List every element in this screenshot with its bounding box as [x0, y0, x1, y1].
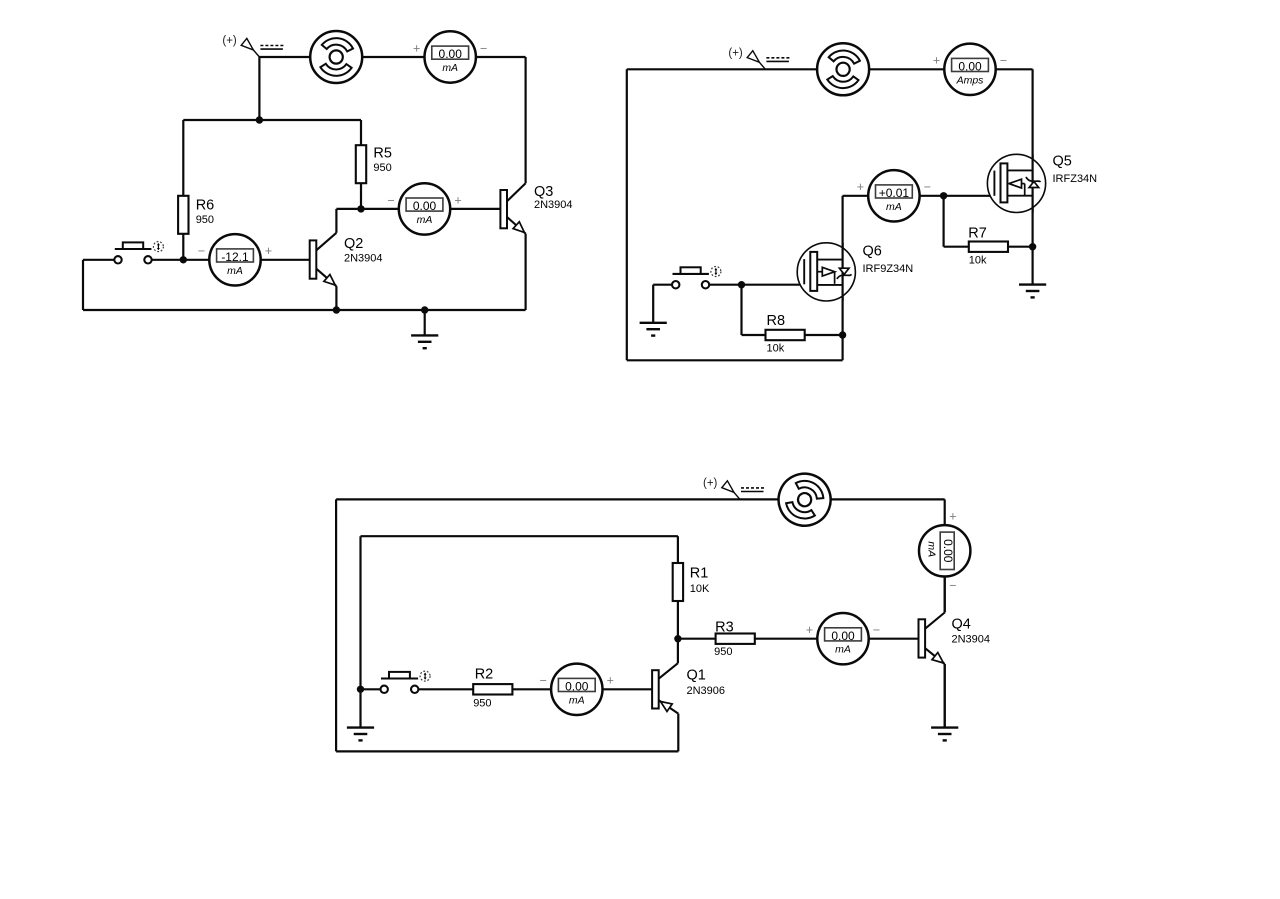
junction node gate/R7 c2 [940, 192, 947, 199]
wire R7 right lead [1008, 246, 1033, 248]
wire net V+ top rail c2 [627, 68, 1033, 70]
svg-text:+: + [607, 674, 614, 688]
ground GND right c3 [931, 728, 958, 741]
wire base distribution rail c1 [183, 119, 361, 121]
svg-text:2N3906: 2N3906 [687, 685, 726, 697]
svg-text:Amps: Amps [956, 74, 985, 86]
transistor Q3 2N3904 (NPN) [500, 57, 525, 310]
junction node R6/base net c1 [180, 256, 187, 263]
label Q4 part 2N3904 [952, 617, 991, 646]
label R6 value 950 [196, 197, 215, 226]
label R5 value 950 [373, 146, 392, 175]
resistor R6 [178, 196, 188, 234]
transistor Q1 2N3906 (PNP) [652, 639, 678, 752]
svg-text:R6: R6 [196, 197, 215, 213]
junction node ground/bottom rail c1 [421, 306, 428, 313]
svg-text:+: + [857, 180, 864, 194]
junction node R1/R3/Q1 collector [674, 635, 681, 642]
svg-text:mA: mA [925, 541, 937, 557]
ammeter A5 +0.01mA [857, 170, 931, 221]
wire gate net Q6 horizontal [709, 284, 804, 286]
transistor Q2 2N3904 (NPN) [310, 209, 337, 310]
wire R1 top lead [677, 536, 679, 563]
label Q3 part 2N3904 [534, 184, 573, 211]
svg-text:−: − [540, 674, 547, 688]
svg-text:950: 950 [373, 162, 391, 174]
wire base rail Q4 c3 [678, 638, 919, 640]
ammeter A4 0.00Amps [933, 44, 1007, 95]
svg-text:0.00: 0.00 [565, 680, 589, 694]
DC power source V1 [310, 31, 362, 83]
svg-text:Q1: Q1 [687, 668, 706, 684]
svg-text:0.00: 0.00 [831, 629, 855, 643]
wire bottom return rail c3 [336, 750, 678, 752]
wire left return vertical c3 [335, 499, 337, 751]
label R2 value 950 [473, 667, 493, 710]
resistor R2 [473, 684, 512, 694]
resistor R5 [356, 145, 366, 183]
svg-text:IRFZ34N: IRFZ34N [1053, 173, 1098, 185]
svg-text:−: − [873, 623, 880, 637]
wire left return vertical c1 [82, 260, 84, 310]
svg-text:mA: mA [886, 201, 902, 213]
wire R7 drop vertical [942, 196, 944, 247]
svg-text:−: − [480, 41, 487, 55]
positive terminal flag (+) c2 [728, 47, 789, 69]
positive terminal flag (+) c1 [222, 35, 283, 57]
wire switch left segment c2 [653, 284, 672, 286]
svg-text:+: + [949, 509, 956, 523]
svg-text:2N3904: 2N3904 [952, 633, 991, 645]
wire ground stem c1 [424, 310, 426, 335]
svg-text:mA: mA [569, 694, 585, 706]
svg-text:mA: mA [227, 265, 243, 277]
ground GND left c2 [640, 323, 667, 336]
label Q5 part IRFZ34N [1053, 154, 1098, 186]
svg-text:950: 950 [714, 646, 732, 658]
junction node R7/ground c2 [1029, 243, 1036, 250]
svg-text:R7: R7 [968, 225, 987, 241]
wire switch left segment c3 [361, 688, 381, 690]
pushbutton switch S1 [114, 242, 163, 264]
svg-text:0.00: 0.00 [413, 199, 437, 213]
svg-text:(+): (+) [222, 35, 237, 47]
wire R8 drop vertical [740, 285, 742, 335]
svg-text:2N3904: 2N3904 [344, 253, 383, 265]
wire A6 to Q4 collector [944, 576, 946, 612]
svg-text:10K: 10K [690, 583, 710, 595]
svg-text:R2: R2 [475, 667, 494, 683]
MOSFET Q6 IRF9Z34N [797, 243, 855, 301]
ammeter A1 0.00mA [413, 31, 487, 82]
wire bottom return rail c1 [83, 309, 526, 311]
pushbutton switch S3 [381, 671, 431, 693]
wire ground stem left c3 [359, 689, 361, 727]
ammeter A3 -12.1mA [198, 234, 272, 285]
svg-text:Q4: Q4 [952, 617, 971, 633]
svg-text:0.00: 0.00 [958, 60, 982, 74]
svg-text:2N3904: 2N3904 [534, 199, 573, 211]
svg-text:+0.01: +0.01 [879, 186, 910, 200]
wire gate net Q5 horizontal [843, 195, 995, 197]
svg-text:10k: 10k [767, 343, 785, 355]
junction node Q2 emitter/bottom rail [333, 306, 340, 313]
svg-text:-12.1: -12.1 [221, 250, 249, 264]
resistor R7 [969, 242, 1008, 252]
wire ground stem right c3 [944, 664, 946, 728]
junction node R5/collector rail c1 [357, 205, 364, 212]
svg-text:Q3: Q3 [534, 184, 553, 200]
MOSFET Q5 IRFZ34N [987, 154, 1045, 212]
wire R7 left lead [944, 246, 969, 248]
svg-text:R8: R8 [767, 313, 786, 329]
wire inner left vertical c3 [359, 536, 361, 689]
ground GND c1 [411, 335, 438, 348]
wire ground stem left c2 [652, 285, 654, 323]
label Q2 part 2N3904 [344, 236, 383, 265]
svg-text:−: − [387, 193, 394, 207]
wire left return vertical c2 [626, 69, 628, 360]
junction node feed/rail c1 [256, 116, 263, 123]
wire R1 bottom lead [677, 601, 679, 639]
svg-text:0.00: 0.00 [941, 539, 955, 563]
label Q1 part 2N3906 [687, 668, 726, 697]
wire net V+ top rail c1 [259, 56, 525, 58]
svg-text:−: − [1000, 54, 1007, 68]
svg-text:+: + [933, 54, 940, 68]
label R8 value 10k [767, 313, 786, 355]
svg-text:10k: 10k [969, 255, 987, 267]
DC power source V2 [817, 43, 869, 95]
svg-text:−: − [949, 578, 956, 592]
label R1 value 10K [690, 566, 710, 595]
label Q6 part IRF9Z34N [863, 244, 914, 276]
svg-text:(+): (+) [703, 477, 718, 489]
ammeter A7 0.00mA vertical (vertical) [919, 509, 970, 592]
wire switch to base net c1 [152, 259, 310, 261]
wire Q6 drain vertical [841, 196, 843, 360]
svg-text:+: + [265, 244, 272, 258]
wire Q5 drain vertical [1031, 69, 1033, 284]
junction node switch/R8 c2 [738, 281, 745, 288]
svg-text:Q6: Q6 [863, 244, 882, 260]
svg-text:−: − [924, 180, 931, 194]
wire net V+ top rail c3 [336, 498, 945, 500]
wire R5 bottom lead [360, 183, 362, 209]
svg-text:+: + [413, 41, 420, 55]
svg-text:0.00: 0.00 [439, 47, 463, 61]
junction node switch/ground c3 [357, 686, 364, 693]
junction node R8/drain c2 [839, 331, 846, 338]
wire R8 left lead [742, 334, 766, 336]
svg-text:R1: R1 [690, 566, 709, 582]
ammeter A2 0.00mA [387, 183, 461, 234]
svg-text:R5: R5 [373, 146, 392, 162]
resistor R1 [673, 563, 683, 601]
wire Q2 collector rail to Q3 base [336, 208, 500, 210]
wire bottom return rail c2 [627, 359, 843, 361]
resistor R3 [716, 634, 755, 644]
wire right feed vertical c3 [944, 499, 946, 525]
wire inner top rail c3 [361, 535, 678, 537]
wire switch-left segment c1 [83, 259, 114, 261]
DC power source V3 [771, 466, 839, 534]
wire switch to R2 segment [418, 688, 473, 690]
wire R8 right lead [805, 334, 843, 336]
ammeter A8 0.00mA base [806, 613, 880, 664]
svg-text:IRF9Z34N: IRF9Z34N [863, 263, 914, 275]
svg-text:+: + [806, 623, 813, 637]
svg-text:Q2: Q2 [344, 236, 363, 252]
wire net V+ feed vertical c1 [258, 57, 260, 120]
svg-text:−: − [198, 244, 205, 258]
resistor R8 [766, 330, 805, 340]
svg-text:mA: mA [835, 644, 851, 656]
positive terminal flag (+) c3 [703, 477, 764, 499]
svg-text:Q5: Q5 [1053, 154, 1072, 170]
svg-text:950: 950 [196, 214, 214, 226]
svg-text:mA: mA [417, 214, 433, 226]
svg-text:mA: mA [442, 62, 458, 74]
wire R6 top lead [182, 120, 184, 196]
wire R5 top lead [360, 120, 362, 145]
ground GND left c3 [347, 728, 374, 741]
wire R6 bottom lead [182, 234, 184, 260]
label R7 value 10k [968, 225, 987, 266]
transistor Q4 2N3904 (NPN) [919, 576, 945, 727]
svg-text:R3: R3 [715, 619, 734, 635]
wire R2 to Q1 base [513, 688, 653, 690]
ground GND right c2 [1019, 285, 1046, 298]
label R3 value 950 [714, 619, 734, 658]
svg-text:+: + [454, 193, 461, 207]
svg-text:(+): (+) [728, 47, 743, 59]
ammeter A9 0.00mA Q1 base [540, 664, 614, 715]
pushbutton switch S2 [672, 267, 721, 289]
svg-text:950: 950 [473, 698, 491, 710]
